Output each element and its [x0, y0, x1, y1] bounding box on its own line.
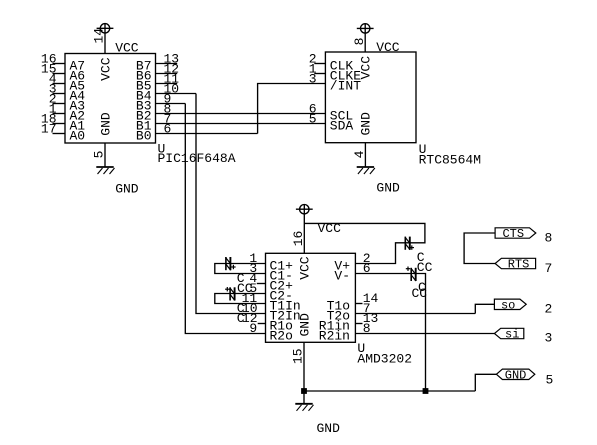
- svg-text:si: si: [505, 328, 519, 342]
- svg-text:3: 3: [545, 330, 553, 345]
- svg-text:5: 5: [309, 111, 317, 126]
- svg-text:5: 5: [546, 373, 554, 388]
- svg-text:VCC: VCC: [318, 221, 342, 236]
- svg-text:V-: V-: [334, 269, 350, 284]
- svg-text:14: 14: [92, 28, 107, 44]
- svg-text:GND: GND: [317, 421, 341, 436]
- svg-text:8: 8: [545, 230, 553, 245]
- svg-text:CTS: CTS: [502, 227, 524, 241]
- svg-text:A0: A0: [70, 129, 86, 144]
- svg-text:3: 3: [309, 71, 317, 86]
- svg-text:VCC: VCC: [376, 40, 400, 55]
- svg-text:VCC: VCC: [98, 57, 113, 81]
- svg-text:GND: GND: [98, 112, 113, 136]
- svg-text:8: 8: [352, 38, 367, 46]
- svg-text:so: so: [501, 298, 515, 312]
- svg-text:AMD3202: AMD3202: [357, 351, 412, 366]
- svg-text:CC: CC: [412, 286, 428, 301]
- svg-text:6: 6: [164, 121, 172, 136]
- svg-text:B0: B0: [136, 129, 152, 144]
- svg-text:/INT: /INT: [330, 79, 361, 94]
- svg-text:GND: GND: [376, 181, 400, 196]
- svg-text:RTS: RTS: [508, 258, 530, 272]
- svg-text:VCC: VCC: [115, 41, 139, 56]
- svg-text:5: 5: [92, 151, 107, 159]
- svg-text:CC: CC: [417, 260, 433, 275]
- svg-text:R2o: R2o: [270, 329, 293, 344]
- svg-text:16: 16: [291, 231, 306, 247]
- svg-text:2: 2: [545, 301, 553, 316]
- svg-text:9: 9: [249, 321, 257, 336]
- svg-text:VCC: VCC: [298, 256, 313, 280]
- svg-text:17: 17: [41, 121, 57, 136]
- svg-text:VCC: VCC: [359, 56, 374, 80]
- svg-text:GND: GND: [298, 313, 313, 337]
- svg-text:GND: GND: [359, 112, 374, 136]
- svg-text:4: 4: [352, 150, 367, 158]
- svg-text:GND: GND: [115, 182, 139, 197]
- svg-text:RTC8564M: RTC8564M: [419, 152, 481, 167]
- svg-text:7: 7: [545, 261, 553, 276]
- svg-text:GND: GND: [505, 368, 527, 382]
- svg-text:R2in: R2in: [319, 329, 350, 344]
- svg-text:SDA: SDA: [330, 119, 354, 134]
- svg-text:15: 15: [291, 348, 306, 364]
